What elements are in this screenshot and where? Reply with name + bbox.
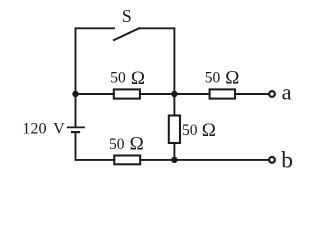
svg-text:50 Ω: 50 Ω [205,68,240,89]
svg-text:120 V: 120 V [22,119,65,137]
wire: top rail right segment (switch to top-right corner, down to middle node) [139,28,174,94]
wire: from R3 down to bottom node [173,143,175,160]
wire: bottom rail from resistor R4 to terminal b [140,159,268,161]
wire: middle rail from R1 to middle node and on to resistor R2 [140,93,210,95]
resistor R2 50 ohm (top right horizontal) [210,89,235,98]
junction node: left middle (battery + R1 + left branch) [72,91,78,97]
terminal b (open circle) [269,157,275,163]
battery B1 short plate [71,131,80,133]
junction node: middle (R1/R2/R3/switch branch) [171,91,177,97]
battery B1 long plate [67,126,85,128]
resistor R3 50 ohm (vertical) [169,116,180,144]
wire: middle rail from node at x=75 to resistor R1 [76,93,114,95]
svg-text:b: b [281,148,293,174]
wire: top rail left segment (top-left corner to switch left contact) [76,28,115,126]
resistor R1 50 ohm (middle horizontal) [114,89,140,98]
wire: battery negative to bottom-left corner to bottom resistor R4 [76,133,115,160]
svg-text:S: S [122,6,132,26]
wire: vertical branch from middle node down to resistor R3 [173,94,175,116]
resistor R4 50 ohm (bottom horizontal) [114,156,140,165]
svg-text:50 Ω: 50 Ω [109,134,144,155]
svg-text:50 Ω: 50 Ω [182,120,216,141]
wire: from R2 to terminal a [235,93,269,95]
switch S arm [114,28,139,40]
junction node: bottom (R3/R4/terminal b) [171,157,177,163]
svg-text:a: a [282,79,292,104]
svg-text:50 Ω: 50 Ω [110,68,145,89]
terminal a (open circle) [269,91,275,97]
